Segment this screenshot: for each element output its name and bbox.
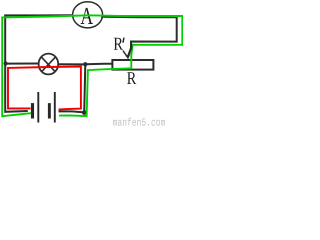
ammeter A1 circle	[73, 2, 103, 28]
junction node middle (lamp / resistor / vertical wire)	[83, 62, 87, 66]
lamp X stroke 1	[42, 57, 56, 71]
battery cell plate: short thick (outer left, negative)	[31, 103, 34, 118]
lamp L1 circle	[39, 54, 59, 75]
wire: black top-left from ammeter left terminal to top-left corner, down left side, to battery negative	[5, 15, 73, 112]
battery cell plate: long thin (positive)	[37, 92, 39, 123]
wiper shaft of rheostat (over green)	[128, 43, 131, 57]
junction node left (lamp branch tap on left wire)	[4, 61, 8, 65]
label R of resistor	[127, 72, 136, 84]
wiper arrowhead left wing	[123, 51, 128, 59]
wire: lamp branch left (left junction to lamp)	[6, 63, 39, 65]
green wire: battery negative around left and top through ammeter to rheostat wiper, then under box to battery positive	[2, 15, 182, 116]
wire: box left terminal to middle junction	[86, 63, 112, 66]
battery cell plate: short thick (negative)	[48, 103, 51, 118]
junction node bottom (battery wire / vertical wire)	[82, 110, 87, 115]
wire: black top-right from ammeter right terminal, right corner, down, left, to rheostat wiper stem	[101, 17, 177, 56]
red wire: through lamp, down right of lamp, to battery positive	[8, 67, 81, 110]
prime mark of R'	[123, 38, 124, 43]
label R of rheostat wiper R'	[114, 38, 123, 50]
wire: battery positive plate to bottom junction	[59, 111, 85, 112]
red wire: left vertical from lamp tap down to battery negative	[8, 67, 31, 109]
wiper arrowhead tip (over green)	[126, 55, 130, 59]
ammeter label A	[81, 8, 93, 24]
resistor R box	[112, 60, 153, 70]
wire: lamp branch right (lamp to middle junction)	[58, 63, 84, 65]
battery cell plate: long thin (outer right, positive)	[54, 92, 56, 123]
watermark manfen5.com	[113, 118, 165, 126]
lamp X stroke 2	[42, 57, 56, 71]
wiper arrowhead tip	[126, 55, 130, 59]
wire: black middle vertical (middle junction down to battery positive wire)	[84, 64, 85, 112]
